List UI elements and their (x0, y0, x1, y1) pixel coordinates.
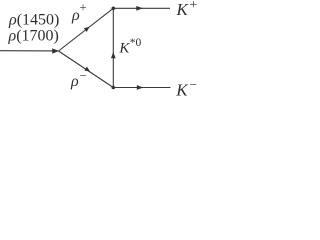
node lower vertex dot (112, 86, 116, 90)
svg-text:K: K (175, 81, 189, 100)
svg-text:−: − (80, 68, 87, 82)
svg-text:+: + (189, 0, 197, 13)
svg-text:+: + (80, 1, 87, 15)
svg-text:ρ(1700): ρ(1700) (8, 28, 59, 45)
node upper vertex dot (112, 7, 116, 11)
wire K*0 propagator vertical (112, 8, 114, 87)
svg-text:*0: *0 (130, 37, 142, 49)
svg-text:ρ(1450): ρ(1450) (8, 12, 59, 29)
wire rho+ diagonal (59, 8, 114, 51)
arrowhead rho+ diagonal (84, 27, 90, 32)
svg-text:K: K (118, 41, 130, 57)
arrowhead K*0 pointing up (111, 52, 116, 58)
wire K- outgoing line (113, 87, 170, 89)
wire rho- diagonal (59, 51, 114, 88)
arrowhead incoming line (52, 48, 59, 53)
svg-text:K: K (176, 0, 190, 19)
svg-text:ρ: ρ (70, 73, 79, 90)
svg-text:−: − (190, 77, 197, 92)
arrowhead rho- diagonal (84, 67, 90, 72)
wire incoming rho line (0, 50, 55, 52)
wire K+ outgoing line (113, 7, 170, 9)
arrowhead K+ line (136, 6, 143, 11)
arrowhead K- line (137, 85, 144, 90)
